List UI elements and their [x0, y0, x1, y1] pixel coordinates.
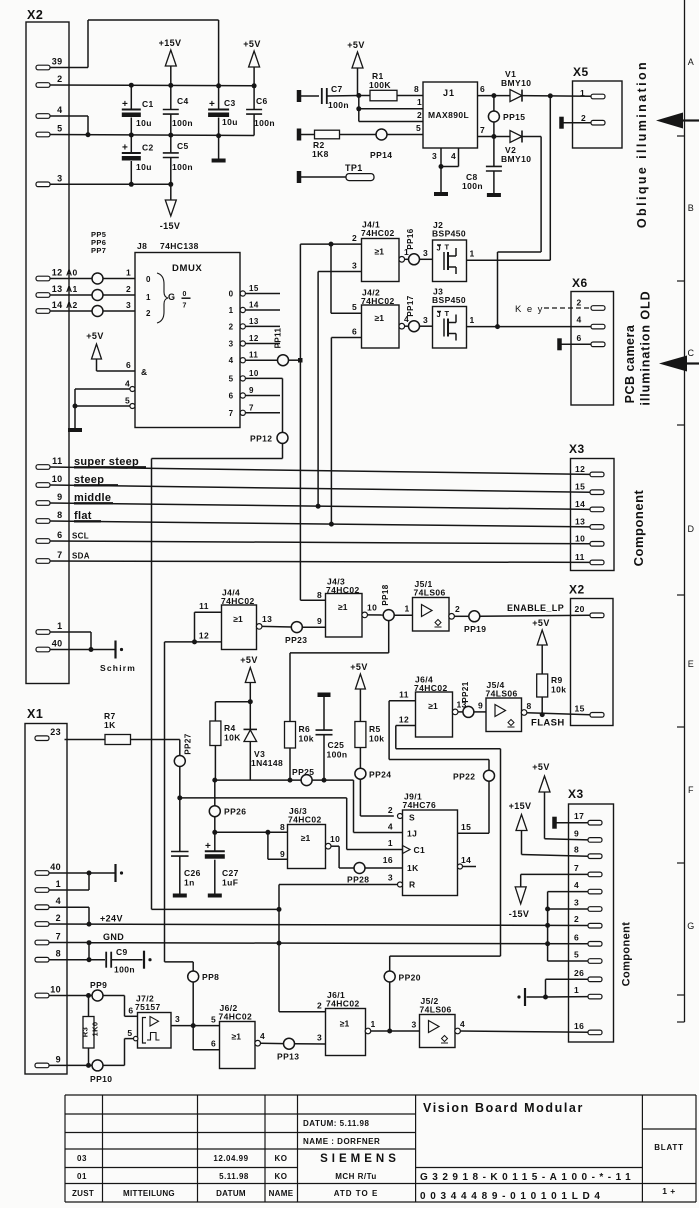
node PP26 bottom / C27 [212, 830, 217, 835]
svg-text:74HC02: 74HC02 [288, 815, 322, 825]
svg-text:7: 7 [249, 403, 254, 412]
wire node to R1 [359, 95, 370, 97]
X3 pin 17 [574, 811, 602, 825]
svg-text:X5: X5 [573, 65, 589, 79]
svg-text:6: 6 [126, 360, 131, 370]
net flat [50, 510, 590, 527]
svg-text:1K: 1K [407, 863, 419, 873]
test point PP24 [355, 768, 392, 779]
X3 pin 11 [575, 552, 604, 565]
node J6/3 pins tie [265, 830, 270, 835]
resistor R7 1K [65, 711, 180, 745]
svg-text:1: 1 [405, 604, 410, 614]
svg-text:8: 8 [317, 590, 322, 600]
ground below J8 [68, 428, 82, 432]
connector X3 (zone F-G) [568, 787, 614, 1042]
svg-text:10u: 10u [136, 118, 152, 128]
svg-text:≥1: ≥1 [375, 313, 385, 323]
output bubble J6/3 pin 10 [325, 834, 340, 849]
net +24V [49, 914, 590, 926]
svg-text:3: 3 [126, 300, 131, 310]
svg-text:R9: R9 [551, 675, 563, 685]
svg-text:12: 12 [199, 631, 209, 641]
wire J4/2.4 to J3.3 [405, 325, 433, 327]
buffer J5/1 74LS06 labels [414, 579, 446, 598]
svg-text:2: 2 [388, 805, 393, 815]
node DMUX out4 to bus [298, 358, 303, 363]
svg-text:2: 2 [352, 233, 357, 243]
svg-text:1K0: 1K0 [91, 1022, 100, 1037]
svg-text:SIEMENS: SIEMENS [320, 1153, 400, 1165]
svg-text:≥1: ≥1 [338, 602, 348, 612]
transistor J2 BSP450 [433, 240, 467, 282]
svg-text:≥1: ≥1 [375, 247, 385, 257]
title text ZUST MITTEILUNG DATUM NAME [72, 1189, 294, 1198]
gate J4/3 74HC02 [326, 594, 363, 638]
svg-text:5: 5 [211, 1015, 216, 1025]
svg-text:+5V: +5V [240, 655, 257, 665]
ground below C27 [208, 894, 222, 898]
svg-text:C25: C25 [328, 740, 345, 750]
svg-text:BLATT: BLATT [654, 1143, 684, 1152]
wire PP25 row [215, 780, 403, 832]
gate J6/1 74HC02 labels [326, 990, 360, 1009]
svg-text:G32918-K0115-A100-*-11: G32918-K0115-A100-*-11 [420, 1172, 635, 1183]
svg-text:+: + [209, 99, 215, 110]
power +5V (J1) [347, 40, 364, 96]
svg-text:GND: GND [103, 932, 124, 942]
output bubble J6/4 pin 13 [452, 700, 466, 715]
svg-text:100n: 100n [462, 181, 483, 191]
gate J4/2 74HC02 [362, 305, 400, 348]
J7 pin labels and input bubble [127, 1006, 137, 1041]
svg-text:9: 9 [574, 828, 579, 838]
capacitor C9 100n [49, 947, 143, 975]
svg-text:6: 6 [480, 84, 485, 94]
svg-text:+5V: +5V [86, 331, 103, 341]
svg-text:PP8: PP8 [202, 972, 219, 982]
svg-text:8: 8 [414, 84, 419, 94]
IC J8 74HC138 DMUX [135, 253, 240, 428]
J8 output 1 pin 14 [229, 301, 280, 316]
test point PP13 [277, 1038, 299, 1061]
diode V2 BMY10 [501, 131, 531, 165]
J8 output 3 pin 12 [229, 334, 280, 349]
X3 pin 1 [574, 985, 602, 999]
svg-text:A: A [688, 57, 694, 67]
svg-text:PP17: PP17 [406, 295, 415, 316]
wire node to J1 pin 2 [359, 109, 423, 122]
svg-text:PP27: PP27 [184, 733, 193, 754]
svg-text:PP26: PP26 [224, 807, 246, 817]
buffer J5/4 74LS06 labels [486, 680, 518, 699]
svg-text:14: 14 [52, 300, 63, 310]
connector X6 [571, 276, 614, 405]
svg-text:3: 3 [388, 873, 393, 883]
svg-text:BSP450: BSP450 [432, 229, 466, 239]
J9 input bubbles S R [398, 814, 403, 888]
X3 pin 2 [574, 914, 602, 928]
net super steep [50, 456, 590, 474]
svg-text:1uF: 1uF [222, 878, 238, 888]
svg-text:74LS06: 74LS06 [486, 689, 518, 699]
test point PP8 [188, 971, 220, 982]
svg-text:100n: 100n [328, 100, 349, 110]
svg-text:11: 11 [199, 601, 209, 611]
capacitor C7 100n [322, 84, 349, 110]
test point PP11 [274, 327, 289, 365]
wire PP27 node row to C1 input of J9 [180, 798, 403, 850]
svg-text:ZUST: ZUST [72, 1189, 94, 1198]
wire J4/1 pin 2 net [300, 233, 361, 600]
svg-text:PP21: PP21 [461, 681, 470, 702]
svg-text:3: 3 [423, 248, 428, 258]
svg-text:S: S [409, 813, 415, 823]
net SCL [50, 532, 590, 544]
svg-text:1: 1 [56, 879, 61, 889]
resistor R4 10K [210, 702, 250, 780]
svg-text:74LS06: 74LS06 [420, 1005, 452, 1015]
wire J6/4 pin 11 to PP22 to J9.15 [389, 690, 489, 834]
svg-text:4: 4 [460, 1019, 465, 1029]
svg-text:12: 12 [575, 464, 585, 474]
wire tick to R2 [301, 134, 315, 136]
J8 output 4 pin 11 [229, 351, 301, 366]
wire J4/4.13 to J4/3.9 [262, 625, 326, 628]
X3 pin 8 [574, 845, 602, 859]
gate J4/1 74HC02 labels [361, 220, 395, 239]
svg-text:G: G [687, 921, 694, 931]
node pin1 branch [356, 106, 361, 111]
wire X2.4 to mid row [50, 116, 88, 135]
svg-text:16: 16 [574, 1021, 584, 1031]
wire R2 to J1 pin 5 [340, 134, 424, 136]
node Schirm tie [89, 647, 94, 652]
wire top cap row (+15V rail) [50, 84, 254, 87]
node top row junctions [129, 83, 257, 89]
X1 pin 9 [35, 1054, 61, 1067]
svg-text:Component: Component [631, 489, 646, 566]
gate J4/4 74HC02 [222, 605, 257, 650]
svg-text:MITTEILUNG: MITTEILUNG [123, 1189, 175, 1198]
X2 pin 5 [36, 124, 63, 137]
svg-text:11: 11 [52, 456, 62, 466]
capacitor C2 10u [122, 135, 154, 184]
X1 pin 10 [35, 985, 61, 998]
svg-text:A1: A1 [66, 284, 78, 294]
J8 output 2 pin 13 [229, 317, 280, 332]
node X1.40 tie [87, 871, 92, 876]
test point PP10 [90, 1060, 112, 1084]
svg-text:R3: R3 [81, 1027, 90, 1037]
wire X1.40/1 to ground [49, 873, 115, 890]
power +15V [159, 38, 182, 85]
output bubble J6/2 pin 4 [255, 1031, 265, 1046]
wire J6/3.10 to PP28 to J9.1K [331, 846, 403, 868]
wire J5/1.2 ENABLE_LP to X2.20 [454, 615, 590, 616]
X2 pin 9 [36, 492, 63, 505]
svg-text:C: C [688, 348, 695, 358]
test point PP6 [91, 238, 106, 301]
output bubble J4/1 pin 1 [399, 247, 409, 262]
X2 pin 8 [36, 510, 63, 523]
svg-text:PP18: PP18 [381, 584, 390, 605]
X2 pin 1 [36, 621, 63, 634]
svg-text:6: 6 [574, 932, 579, 942]
test point PP21 [461, 681, 474, 717]
svg-text:6: 6 [57, 530, 62, 540]
node V1 anode [491, 93, 496, 98]
gate J4/3 74HC02 labels [326, 577, 360, 596]
wire X3.26/1 ground [527, 979, 589, 997]
X2 pin 13 [36, 284, 63, 297]
node flat row / J4-2.6 bus [329, 522, 334, 527]
gate J6/4 74HC02 labels [414, 675, 448, 694]
svg-text:C1: C1 [142, 99, 154, 109]
svg-text:1K: 1K [104, 720, 116, 730]
svg-text:Oblique illumination: Oblique illumination [635, 60, 649, 228]
svg-text:+: + [122, 99, 128, 110]
svg-text:X6: X6 [572, 276, 588, 290]
buffer J5/1 74LS06 [413, 598, 450, 632]
power +5V (R4/V3) [240, 655, 257, 702]
svg-text:NAME: NAME [269, 1189, 294, 1198]
svg-text:Vision Board Modular: Vision Board Modular [423, 1101, 584, 1115]
connector X5 [573, 65, 623, 148]
test point PP25 [292, 767, 314, 786]
svg-text:75157: 75157 [135, 1002, 161, 1012]
svg-text:2: 2 [577, 298, 582, 308]
node X3 tie junctions [545, 907, 550, 912]
svg-text:9: 9 [56, 1054, 61, 1064]
wire R1 to J1 pin 8 [397, 95, 423, 97]
svg-text:J1: J1 [443, 88, 455, 98]
wire end tick (TP1) [297, 171, 302, 183]
wire J2.1 to V1 net [467, 96, 551, 260]
test point PP9 [90, 980, 107, 1001]
J8 enable pins 4 5 to ground [73, 379, 135, 429]
svg-text:12: 12 [52, 268, 63, 278]
svg-text:7: 7 [229, 409, 234, 418]
X3 pin 9 [574, 828, 602, 842]
output bubble J4/3 pin 10 [362, 603, 377, 618]
power +5V (R9) [532, 618, 549, 674]
node mid row junctions [86, 132, 222, 138]
wire X1.10 to J7.6 [49, 996, 138, 1017]
ground Schirm [114, 641, 116, 659]
gate J4/2 74HC02 labels [361, 288, 395, 307]
svg-text:14: 14 [461, 855, 471, 865]
X3 pin 7 [574, 863, 602, 877]
X3 pin 26 [574, 968, 602, 982]
wire end tick (X5.2) [559, 117, 591, 129]
svg-text:10u: 10u [136, 162, 152, 172]
output bubble J5/1 pin 2 [449, 604, 460, 619]
svg-text:PP10: PP10 [90, 1074, 112, 1084]
net SDA [50, 552, 590, 563]
svg-text:3: 3 [423, 315, 428, 325]
X6 pin 6 [577, 333, 606, 347]
wire X1.9 to J7.5 [49, 1039, 134, 1066]
X3 pin 12 [575, 464, 604, 477]
wire tick to TP1 [301, 176, 346, 178]
title block grid [65, 1095, 696, 1202]
wire J7.3 output [171, 1014, 220, 1026]
svg-text:PP25: PP25 [292, 767, 314, 777]
svg-text:40: 40 [50, 862, 61, 872]
X2 pin 2 [36, 74, 63, 87]
svg-text:PP22: PP22 [453, 772, 475, 782]
test point PP19 [464, 611, 486, 634]
wire J4/2 pin 6 net [331, 327, 361, 525]
svg-text:1: 1 [126, 268, 131, 278]
svg-text:10: 10 [249, 369, 259, 378]
node PP27/C26 [177, 795, 182, 800]
svg-text:10: 10 [367, 603, 377, 613]
svg-text:3: 3 [175, 1014, 180, 1024]
J8 output 5 pin 10 [229, 369, 283, 384]
wire X2.13 A1 to J8.2 [50, 284, 135, 295]
svg-text:G: G [168, 292, 175, 302]
svg-text:100n: 100n [172, 118, 193, 128]
connector X3 (zone D) [569, 442, 614, 571]
wire tie down to J4/2 pin 5 [331, 244, 362, 313]
svg-text:PP28: PP28 [347, 875, 369, 885]
X3 pin 15 [575, 482, 604, 495]
X1 pin 23 [35, 727, 61, 740]
wire J4/4 pin 11 [195, 601, 222, 642]
power -15V (X3.7) [509, 874, 588, 919]
svg-text:15: 15 [461, 822, 471, 832]
wire PP24 to J9.S [360, 779, 393, 816]
net middle [50, 492, 590, 509]
power +5V (top) [243, 39, 260, 86]
svg-text:-15V: -15V [160, 221, 181, 231]
svg-text:74HC02: 74HC02 [361, 228, 395, 238]
svg-text:6: 6 [229, 392, 234, 401]
svg-text:3: 3 [412, 1020, 417, 1030]
svg-text:9: 9 [249, 386, 254, 395]
svg-text:5: 5 [229, 374, 234, 383]
svg-text:≥1: ≥1 [340, 1019, 350, 1029]
svg-text:10k: 10k [551, 685, 566, 695]
svg-text:2: 2 [317, 1001, 322, 1011]
ground X3.1 [524, 988, 526, 1006]
svg-text:Component: Component [621, 922, 633, 987]
X2 pin 3 [36, 173, 63, 186]
diode V3 1N4148 [244, 702, 284, 780]
net steep [50, 474, 590, 492]
ground below J1 [434, 192, 448, 196]
wire PP18 branch to R6 [290, 621, 389, 722]
wire J6/2 pin 6 tie [193, 1026, 219, 1050]
wire X2.39 to +15V rail [50, 20, 219, 86]
gate J6/3 74HC02 labels [288, 806, 322, 825]
gate J4/1 74HC02 [362, 239, 400, 282]
svg-text:9: 9 [280, 849, 285, 859]
capacitor C25 100n [316, 693, 348, 781]
svg-text:E: E [688, 659, 694, 669]
svg-text:4: 4 [451, 151, 456, 161]
svg-text:illumination OLD: illumination OLD [639, 290, 653, 405]
node J4/1.2 / J4/2.5 tie [329, 242, 334, 247]
svg-text:T: T [445, 243, 450, 252]
ground below C3 [212, 136, 226, 163]
power +5V (X3.9) [532, 762, 588, 840]
svg-text:9: 9 [478, 701, 483, 711]
transistor J2 BSP450 labels [432, 220, 466, 239]
svg-text:C3: C3 [224, 98, 236, 108]
svg-text:+5V: +5V [350, 662, 367, 672]
svg-text:X2: X2 [569, 583, 585, 597]
node R6 bottom [288, 778, 293, 783]
wire bus to J6/1 pin 2 net [152, 885, 326, 1012]
transistor J3 BSP450 [433, 307, 467, 349]
wire J1.7 to V2 [478, 136, 511, 138]
svg-text:0: 0 [229, 290, 234, 299]
wire C7 to node [327, 95, 359, 98]
svg-text:3: 3 [352, 261, 357, 271]
wire FLASH to X2.15 [527, 713, 590, 715]
svg-text:39: 39 [52, 57, 63, 67]
svg-text:23: 23 [50, 727, 61, 737]
svg-text:5: 5 [57, 124, 62, 134]
X1 pin 8 [35, 949, 61, 962]
svg-text:13: 13 [575, 516, 585, 526]
wire J6/4.13 to J5/4.9 [458, 711, 486, 713]
svg-text:1N4148: 1N4148 [251, 758, 283, 768]
svg-text:+: + [122, 143, 128, 154]
output bubble J5/2 pin 4 [455, 1019, 465, 1034]
output bubble J6/1 pin 1 [365, 1019, 375, 1034]
svg-text:5: 5 [125, 396, 130, 406]
svg-text:13: 13 [52, 284, 63, 294]
X2 pin 10 [36, 474, 63, 487]
svg-text:11: 11 [249, 351, 258, 360]
ground after C9 [143, 951, 145, 969]
svg-text:7: 7 [56, 932, 61, 942]
buffer J5/2 74LS06 [420, 1015, 456, 1048]
X3 pin 4 [574, 880, 602, 894]
J8 output 0 pin 15 [229, 284, 280, 299]
svg-text:A0: A0 [66, 268, 78, 278]
svg-text:1: 1 [470, 249, 475, 259]
svg-text:26: 26 [574, 968, 584, 978]
svg-text:0: 0 [146, 275, 151, 284]
svg-text:7: 7 [183, 303, 187, 310]
svg-text:DATUM: DATUM [216, 1189, 246, 1198]
svg-text:C27: C27 [222, 868, 239, 878]
svg-text:PP12: PP12 [250, 434, 272, 444]
X1 pin 4 [35, 896, 61, 909]
svg-text:5: 5 [416, 123, 421, 133]
wire DMUX out5 to PP12 [152, 378, 283, 909]
node J2/J3 output tie [495, 324, 500, 329]
resistor R5 10k [355, 722, 384, 769]
svg-text:1: 1 [574, 985, 579, 995]
node R net junctions [277, 907, 282, 912]
svg-text:4: 4 [577, 315, 582, 325]
wire X2.14 A2 to J8.3 [50, 300, 135, 311]
svg-text:+15V: +15V [509, 801, 532, 811]
X2 pin 40 [36, 639, 63, 652]
wire X1.7 to X1.8 [88, 943, 90, 960]
node V2 anode / C8 [491, 134, 496, 139]
wire end tick (X3.17) [552, 817, 588, 829]
ground below C26 [173, 894, 187, 898]
off-sheet arrow Oblique illumination [656, 113, 699, 129]
svg-text:10: 10 [575, 533, 585, 543]
